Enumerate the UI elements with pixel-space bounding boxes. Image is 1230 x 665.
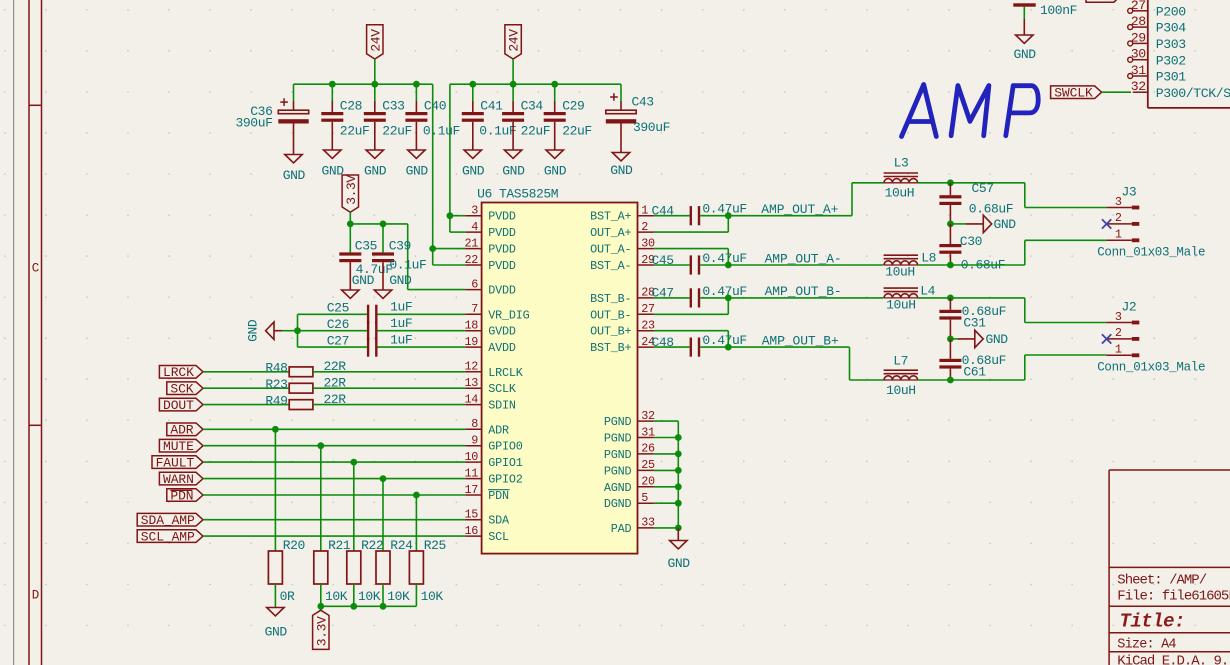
power flag 24V #2 <box>505 25 521 59</box>
capacitor C41 <box>472 84 474 101</box>
svg-text:C31: C31 <box>963 316 986 331</box>
svg-text:BST_B-: BST_B- <box>590 292 631 306</box>
svg-text:L8: L8 <box>921 251 936 266</box>
wire 3.3V rail <box>350 223 407 225</box>
resistor R22 10K <box>353 462 355 551</box>
wire 24V rail 1 <box>294 83 433 85</box>
svg-text:SCL: SCL <box>488 530 509 544</box>
svg-text:1uF: 1uF <box>390 300 412 315</box>
capacitor C44 0.47uF <box>690 206 692 225</box>
svg-text:SCK: SCK <box>170 382 193 397</box>
resistor R23 22R <box>289 383 313 393</box>
svg-text:25: 25 <box>641 458 655 472</box>
svg-text:C39: C39 <box>389 238 411 253</box>
svg-text:R25: R25 <box>424 538 446 553</box>
svg-text:KiCad E.D.A. 9.: KiCad E.D.A. 9. <box>1117 653 1228 665</box>
junction MUTE/R21 <box>317 442 324 449</box>
svg-text:15: 15 <box>464 508 478 522</box>
capacitor C40 <box>415 84 417 101</box>
svg-text:P300/TCK/S: P300/TCK/S <box>1156 86 1230 101</box>
ground right (channel A) <box>950 223 966 225</box>
IC (top right) body edge <box>1147 0 1149 108</box>
ground left of C26 <box>282 330 298 332</box>
capacitor C27 <box>367 338 369 357</box>
wire LRCK to resistor <box>203 371 289 373</box>
ground below R20 <box>267 608 284 616</box>
capacitor C34 <box>512 84 514 101</box>
capacitor C30 0.68uF <box>949 224 951 244</box>
inductor L4 10uH <box>884 294 918 298</box>
svg-text:7: 7 <box>471 302 478 316</box>
svg-text:17: 17 <box>464 483 478 497</box>
svg-text:0.47uF: 0.47uF <box>702 284 746 299</box>
wire 24V#1 stem <box>374 59 376 84</box>
wire L8 to C30 node <box>918 264 951 266</box>
inductor L3 10uH <box>884 179 918 183</box>
global label SDA_AMP <box>137 513 203 526</box>
svg-text:AMP_OUT_A-: AMP_OUT_A- <box>765 251 842 266</box>
svg-text:24V: 24V <box>368 29 383 52</box>
wire 3.3V stem <box>349 212 351 224</box>
svg-text:OUT_A-: OUT_A- <box>590 243 631 257</box>
IC pin 27 P200 <box>1133 10 1148 12</box>
svg-text:SCL_AMP: SCL_AMP <box>141 529 195 544</box>
junction cap bus <box>294 327 301 334</box>
svg-text:30: 30 <box>641 236 655 250</box>
IC pin 28 P304 <box>1133 26 1148 28</box>
svg-text:11: 11 <box>464 466 478 480</box>
wire to J3 pin1 <box>950 264 1024 266</box>
junction rail1/C33 <box>371 81 378 88</box>
svg-text:P302: P302 <box>1156 53 1186 68</box>
wire to J3 pin3 <box>950 182 1024 184</box>
svg-text:AMP_OUT_B-: AMP_OUT_B- <box>765 284 842 299</box>
sheet title text AMP <box>902 85 1039 137</box>
svg-text:2: 2 <box>1115 326 1122 340</box>
wire SCL <box>203 535 465 537</box>
junction 3.3V/C35 <box>347 221 354 228</box>
wire R48 to U6 <box>313 371 466 373</box>
capacitor 100nF (top) <box>1013 3 1035 6</box>
J3 pin 2 <box>1107 223 1132 225</box>
svg-text:C26: C26 <box>327 317 349 332</box>
ground below C33 <box>366 150 383 158</box>
svg-text:PVDD: PVDD <box>488 259 516 273</box>
svg-text:22: 22 <box>464 253 478 267</box>
svg-text:19: 19 <box>464 335 478 349</box>
U6 pin 3 PVDD <box>465 215 481 217</box>
global label FAULT <box>152 456 203 469</box>
svg-text:3.3V: 3.3V <box>314 616 329 646</box>
wire WARN to U6 <box>203 478 465 480</box>
wire BST_B- to C47 <box>654 297 690 299</box>
op-amp U6 TAS5825M body <box>482 203 638 554</box>
svg-text:DGND: DGND <box>604 497 632 511</box>
svg-text:390uF: 390uF <box>235 115 272 130</box>
ground below C36 <box>285 155 302 163</box>
wire SWCLK to P300 <box>1102 91 1131 93</box>
power flag 3.3V (DVDD) <box>342 175 358 212</box>
U6 pin 27 OUT_B- <box>638 313 654 315</box>
svg-text:0.47uF: 0.47uF <box>702 251 746 266</box>
svg-text:C30: C30 <box>960 234 982 249</box>
wire SCK to resistor <box>203 387 289 389</box>
ground below C41 <box>464 150 481 158</box>
svg-text:File: file61605FD: File: file61605FD <box>1117 588 1230 604</box>
svg-text:PGND: PGND <box>604 448 632 462</box>
svg-text:22uF: 22uF <box>340 123 370 138</box>
svg-text:10K: 10K <box>387 589 410 604</box>
svg-text:C: C <box>32 262 39 276</box>
svg-text:GND: GND <box>986 332 1009 347</box>
U6 pin 20 AGND <box>638 486 654 488</box>
svg-text:6: 6 <box>471 277 478 291</box>
capacitor C45 0.47uF <box>690 255 692 274</box>
junction rail2/C29 <box>551 81 558 88</box>
svg-text:1uF: 1uF <box>390 316 412 331</box>
global label DOUT <box>159 398 203 411</box>
svg-text:GND: GND <box>610 163 633 178</box>
ground below PAD <box>677 528 679 541</box>
ground below C29 <box>546 150 563 158</box>
resistor R24 10K <box>382 479 384 551</box>
junction AMP_OUT_B- <box>725 295 732 302</box>
svg-text:3.3V: 3.3V <box>344 175 359 205</box>
junction C61/B+ low <box>947 377 954 384</box>
IC pin 32 P300/TCK/S <box>1133 91 1148 93</box>
svg-text:DVDD: DVDD <box>488 284 516 298</box>
svg-text:C35: C35 <box>355 238 377 253</box>
capacitor C25 <box>367 305 369 324</box>
svg-text:GND: GND <box>544 164 567 179</box>
capacitor C28 <box>331 84 333 101</box>
junction PVDD pin21 <box>429 245 436 252</box>
U6 pin 12 LRCLK <box>465 371 481 373</box>
global label SWCLK <box>1051 86 1102 99</box>
junction FAULT/R22 <box>350 459 357 466</box>
svg-text:1: 1 <box>1115 343 1122 357</box>
junction 3.3V/C39 <box>380 221 387 228</box>
U6 pin 14 SDIN <box>465 404 481 406</box>
J2 pin 1 <box>1107 354 1132 356</box>
ground below C34 <box>504 150 521 158</box>
wire AMP_OUT_A- through L8 <box>728 264 883 266</box>
capacitor C36 (polarized) <box>293 84 295 101</box>
junction WARN/R24 <box>380 475 387 482</box>
inductor L8 10uH <box>884 261 918 265</box>
svg-text:PGND: PGND <box>604 464 632 478</box>
wire C45 to node <box>700 264 728 266</box>
ground below C40 <box>408 150 425 158</box>
ground right (channel B) <box>950 338 958 340</box>
J3 pin 3 <box>1107 207 1132 209</box>
capacitor C39 <box>382 224 384 253</box>
wire MUTE to U6 <box>203 445 465 447</box>
svg-text:PVDD: PVDD <box>488 210 516 224</box>
svg-text:4: 4 <box>471 220 478 234</box>
power flag 3.3V (pullups) <box>313 610 329 649</box>
U6 pin 24 BST_B+ <box>638 346 654 348</box>
U6 pin 31 PGND <box>638 437 654 439</box>
svg-text:30: 30 <box>1131 47 1147 62</box>
svg-text:PVDD: PVDD <box>488 226 516 240</box>
junction PGND <box>675 483 682 490</box>
svg-text:ADR: ADR <box>170 423 193 438</box>
svg-text:GND: GND <box>364 164 387 179</box>
junction PVDD pin3 <box>447 212 454 219</box>
U6 pin 33 PAD <box>638 527 654 529</box>
svg-text:21: 21 <box>464 236 478 250</box>
ground below 100nF <box>1023 19 1025 35</box>
U6 pin 22 PVDD <box>465 264 481 266</box>
svg-text:0.47uF: 0.47uF <box>702 333 746 348</box>
svg-text:10K: 10K <box>421 589 444 604</box>
junction PDN/R25 <box>413 492 420 499</box>
svg-text:C47: C47 <box>652 286 674 301</box>
junction rail2/C41 <box>469 81 476 88</box>
svg-text:SWCLK: SWCLK <box>1054 86 1093 101</box>
wire AMP_OUT_A+ to L3 <box>728 215 852 217</box>
svg-text:GND: GND <box>321 164 344 179</box>
global label PDN <box>167 489 203 502</box>
IC pin 30 P302 <box>1133 59 1148 61</box>
svg-text:C61: C61 <box>963 364 986 379</box>
capacitor C47 0.47uF <box>690 288 692 307</box>
svg-text:GND: GND <box>502 164 525 179</box>
svg-text:33: 33 <box>641 516 655 530</box>
capacitor C57 0.68uF <box>949 183 951 195</box>
svg-text:GND: GND <box>246 319 261 342</box>
resistor R49 22R <box>289 400 313 410</box>
svg-text:9: 9 <box>471 434 478 448</box>
junction rail2/C34 <box>510 81 517 88</box>
U6 pin 8 ADR <box>465 428 481 430</box>
svg-text:L4: L4 <box>920 284 935 299</box>
svg-text:22uF: 22uF <box>521 123 551 138</box>
svg-text:10: 10 <box>464 450 478 464</box>
svg-text:SDA: SDA <box>488 514 510 528</box>
wire OUT_A+ up <box>654 231 728 233</box>
resistor R21 10K <box>320 446 322 551</box>
wire OUT_B+ down <box>654 330 728 332</box>
svg-text:22uF: 22uF <box>562 123 592 138</box>
svg-text:FAULT: FAULT <box>156 455 195 470</box>
wire L4 to C31 <box>918 297 951 299</box>
wire SDA <box>203 519 465 521</box>
svg-text:29: 29 <box>1131 30 1146 45</box>
svg-text:C48: C48 <box>652 335 674 350</box>
U6 pin 2 OUT_A+ <box>638 231 654 233</box>
global label ADR <box>167 423 203 436</box>
U6 pin 29 BST_A- <box>638 264 654 266</box>
svg-text:GPIO2: GPIO2 <box>488 473 523 487</box>
svg-text:OUT_B+: OUT_B+ <box>590 325 631 339</box>
wire AMP_OUT_B- through L4 <box>728 297 883 299</box>
capacitor C31 0.68uF <box>949 298 951 310</box>
svg-text:WARN: WARN <box>163 472 194 487</box>
ground below C43 <box>612 153 629 161</box>
svg-text:SDA_AMP: SDA_AMP <box>141 513 195 528</box>
U6 pin 5 DGND <box>638 502 654 504</box>
svg-text:2: 2 <box>641 220 648 234</box>
svg-text:MUTE: MUTE <box>163 439 194 454</box>
junction C30/AMP_OUT_A- <box>947 262 954 269</box>
U6 pin 21 PVDD <box>465 248 481 250</box>
capacitor C48 0.47uF <box>690 338 692 357</box>
svg-text:GPIO0: GPIO0 <box>488 440 523 454</box>
junction C57/C30 <box>947 221 954 228</box>
svg-text:10K: 10K <box>325 589 348 604</box>
svg-text:10uH: 10uH <box>886 298 916 313</box>
junction rail1/C40 <box>413 81 420 88</box>
svg-text:R48: R48 <box>265 361 287 376</box>
wire to J2 pin1 <box>950 379 1024 381</box>
svg-text:P301: P301 <box>1156 70 1187 85</box>
wire OUT_A- down <box>654 248 728 250</box>
svg-text:GND: GND <box>667 556 690 571</box>
capacitor C61 0.68uF <box>949 339 951 359</box>
wire DVDD feed <box>407 224 409 290</box>
wire BST_A- to C45 <box>654 264 690 266</box>
svg-text:26: 26 <box>641 442 655 456</box>
junction PGND <box>675 525 682 532</box>
svg-text:L7: L7 <box>893 354 908 369</box>
svg-text:SDIN: SDIN <box>488 399 516 413</box>
inductor L7 10uH <box>884 376 918 380</box>
svg-text:LRCLK: LRCLK <box>488 366 524 380</box>
svg-text:12: 12 <box>464 360 478 374</box>
junction PGND <box>675 467 682 474</box>
svg-text:31: 31 <box>641 425 655 439</box>
svg-text:C34: C34 <box>521 98 544 113</box>
capacitor C26 <box>367 321 369 340</box>
svg-text:8: 8 <box>471 417 478 431</box>
global label WARN <box>159 472 203 485</box>
svg-text:3: 3 <box>1115 195 1122 209</box>
no-connect X on J3 pin 2 <box>1102 219 1111 228</box>
capacitor C29 <box>554 84 556 101</box>
wire DOUT to resistor <box>203 404 289 406</box>
svg-text:C44: C44 <box>652 204 675 219</box>
svg-text:0.47uF: 0.47uF <box>702 202 746 217</box>
svg-text:P200: P200 <box>1156 4 1187 19</box>
svg-text:100nF: 100nF <box>1040 3 1077 18</box>
junction L4/C31 <box>947 295 954 302</box>
U6 pin 1 BST_A+ <box>638 215 654 217</box>
svg-text:R20: R20 <box>283 538 305 553</box>
U6 pin 4 PVDD <box>465 231 481 233</box>
svg-text:13: 13 <box>464 376 478 390</box>
svg-text:Conn_01x03_Male: Conn_01x03_Male <box>1097 361 1205 375</box>
U6 pin 16 SCL <box>465 535 481 537</box>
U6 pin 30 OUT_A- <box>638 248 654 250</box>
svg-text:GND: GND <box>265 625 288 640</box>
svg-text:0.68uF: 0.68uF <box>969 202 1013 217</box>
svg-text:U6: U6 <box>477 187 492 202</box>
svg-text:C40: C40 <box>424 98 446 113</box>
J3 pin 1 <box>1107 239 1132 241</box>
resistor R48 22R <box>289 367 313 377</box>
resistor R25 10K <box>415 495 417 551</box>
svg-text:OUT_A+: OUT_A+ <box>590 226 631 240</box>
svg-text:20: 20 <box>641 475 655 489</box>
svg-text:L3: L3 <box>894 156 909 171</box>
wire L3 to C57 <box>918 182 951 184</box>
junction R22 <box>350 603 357 610</box>
svg-text:ADR: ADR <box>488 423 509 437</box>
junction R24 <box>380 603 387 610</box>
IC pin 29 P303 <box>1133 42 1148 44</box>
svg-text:R23: R23 <box>265 377 287 392</box>
svg-text:GND: GND <box>406 164 429 179</box>
capacitor C33 <box>374 84 376 101</box>
svg-text:10uH: 10uH <box>886 383 916 398</box>
svg-text:10K: 10K <box>358 589 381 604</box>
junction PGND <box>675 500 682 507</box>
resistor R20 0R <box>274 429 276 551</box>
capacitor C35 <box>349 224 351 253</box>
svg-text:18: 18 <box>464 319 478 333</box>
svg-text:C29: C29 <box>562 98 584 113</box>
svg-text:10uH: 10uH <box>885 186 915 201</box>
svg-text:GVDD: GVDD <box>488 325 516 339</box>
U6 pin 23 OUT_B+ <box>638 330 654 332</box>
wire L7 to C61 node <box>918 379 951 381</box>
wire C47 to node <box>700 297 728 299</box>
U6 pin 18 GVDD <box>465 330 481 332</box>
svg-text:LRCK: LRCK <box>163 365 194 380</box>
svg-text:AMP_OUT_B+: AMP_OUT_B+ <box>762 333 839 348</box>
svg-text:D: D <box>32 589 39 603</box>
wire 24V rail 2 <box>450 83 621 85</box>
svg-text:TAS5825M: TAS5825M <box>499 187 558 202</box>
junction rail1/C28 <box>329 81 336 88</box>
global label LRCK <box>159 366 203 379</box>
svg-text:GND: GND <box>283 168 306 183</box>
svg-text:Sheet: /AMP/: Sheet: /AMP/ <box>1117 573 1206 589</box>
wire rail2 drop to PVDD pins 3/4 <box>449 84 451 232</box>
svg-text:390uF: 390uF <box>633 120 670 135</box>
svg-text:0R: 0R <box>280 589 295 604</box>
junction AMP_OUT_A- <box>725 262 732 269</box>
svg-text:0.1uF: 0.1uF <box>423 123 460 138</box>
svg-text:BST_A-: BST_A- <box>590 259 631 273</box>
svg-text:GND: GND <box>352 273 375 288</box>
no-connect X on J2 pin 2 <box>1102 334 1111 343</box>
svg-text:C33: C33 <box>382 98 404 113</box>
svg-text:32: 32 <box>641 409 655 423</box>
svg-text:5: 5 <box>641 491 648 505</box>
wire R20 to ground <box>274 584 276 608</box>
wire ADR to U6 <box>203 428 465 430</box>
svg-text:0.1uF: 0.1uF <box>389 257 426 272</box>
U6 pin 28 BST_B- <box>638 297 654 299</box>
svg-text:OUT_B-: OUT_B- <box>590 308 631 322</box>
svg-text:C45: C45 <box>652 253 674 268</box>
svg-text:1: 1 <box>1115 228 1122 242</box>
U6 pin 17 PDN <box>465 494 481 496</box>
svg-text:GND: GND <box>462 164 485 179</box>
title block frame <box>1108 470 1110 665</box>
svg-text:SCLK: SCLK <box>488 382 517 396</box>
svg-text:C28: C28 <box>340 98 362 113</box>
U6 pin 9 GPIO0 <box>465 445 481 447</box>
wire BST_B+ to C48 <box>654 346 690 348</box>
svg-text:P304: P304 <box>1156 21 1187 36</box>
svg-text:10uH: 10uH <box>885 265 915 280</box>
svg-text:Title:: Title: <box>1120 611 1185 633</box>
global label SCL_AMP <box>137 530 203 543</box>
